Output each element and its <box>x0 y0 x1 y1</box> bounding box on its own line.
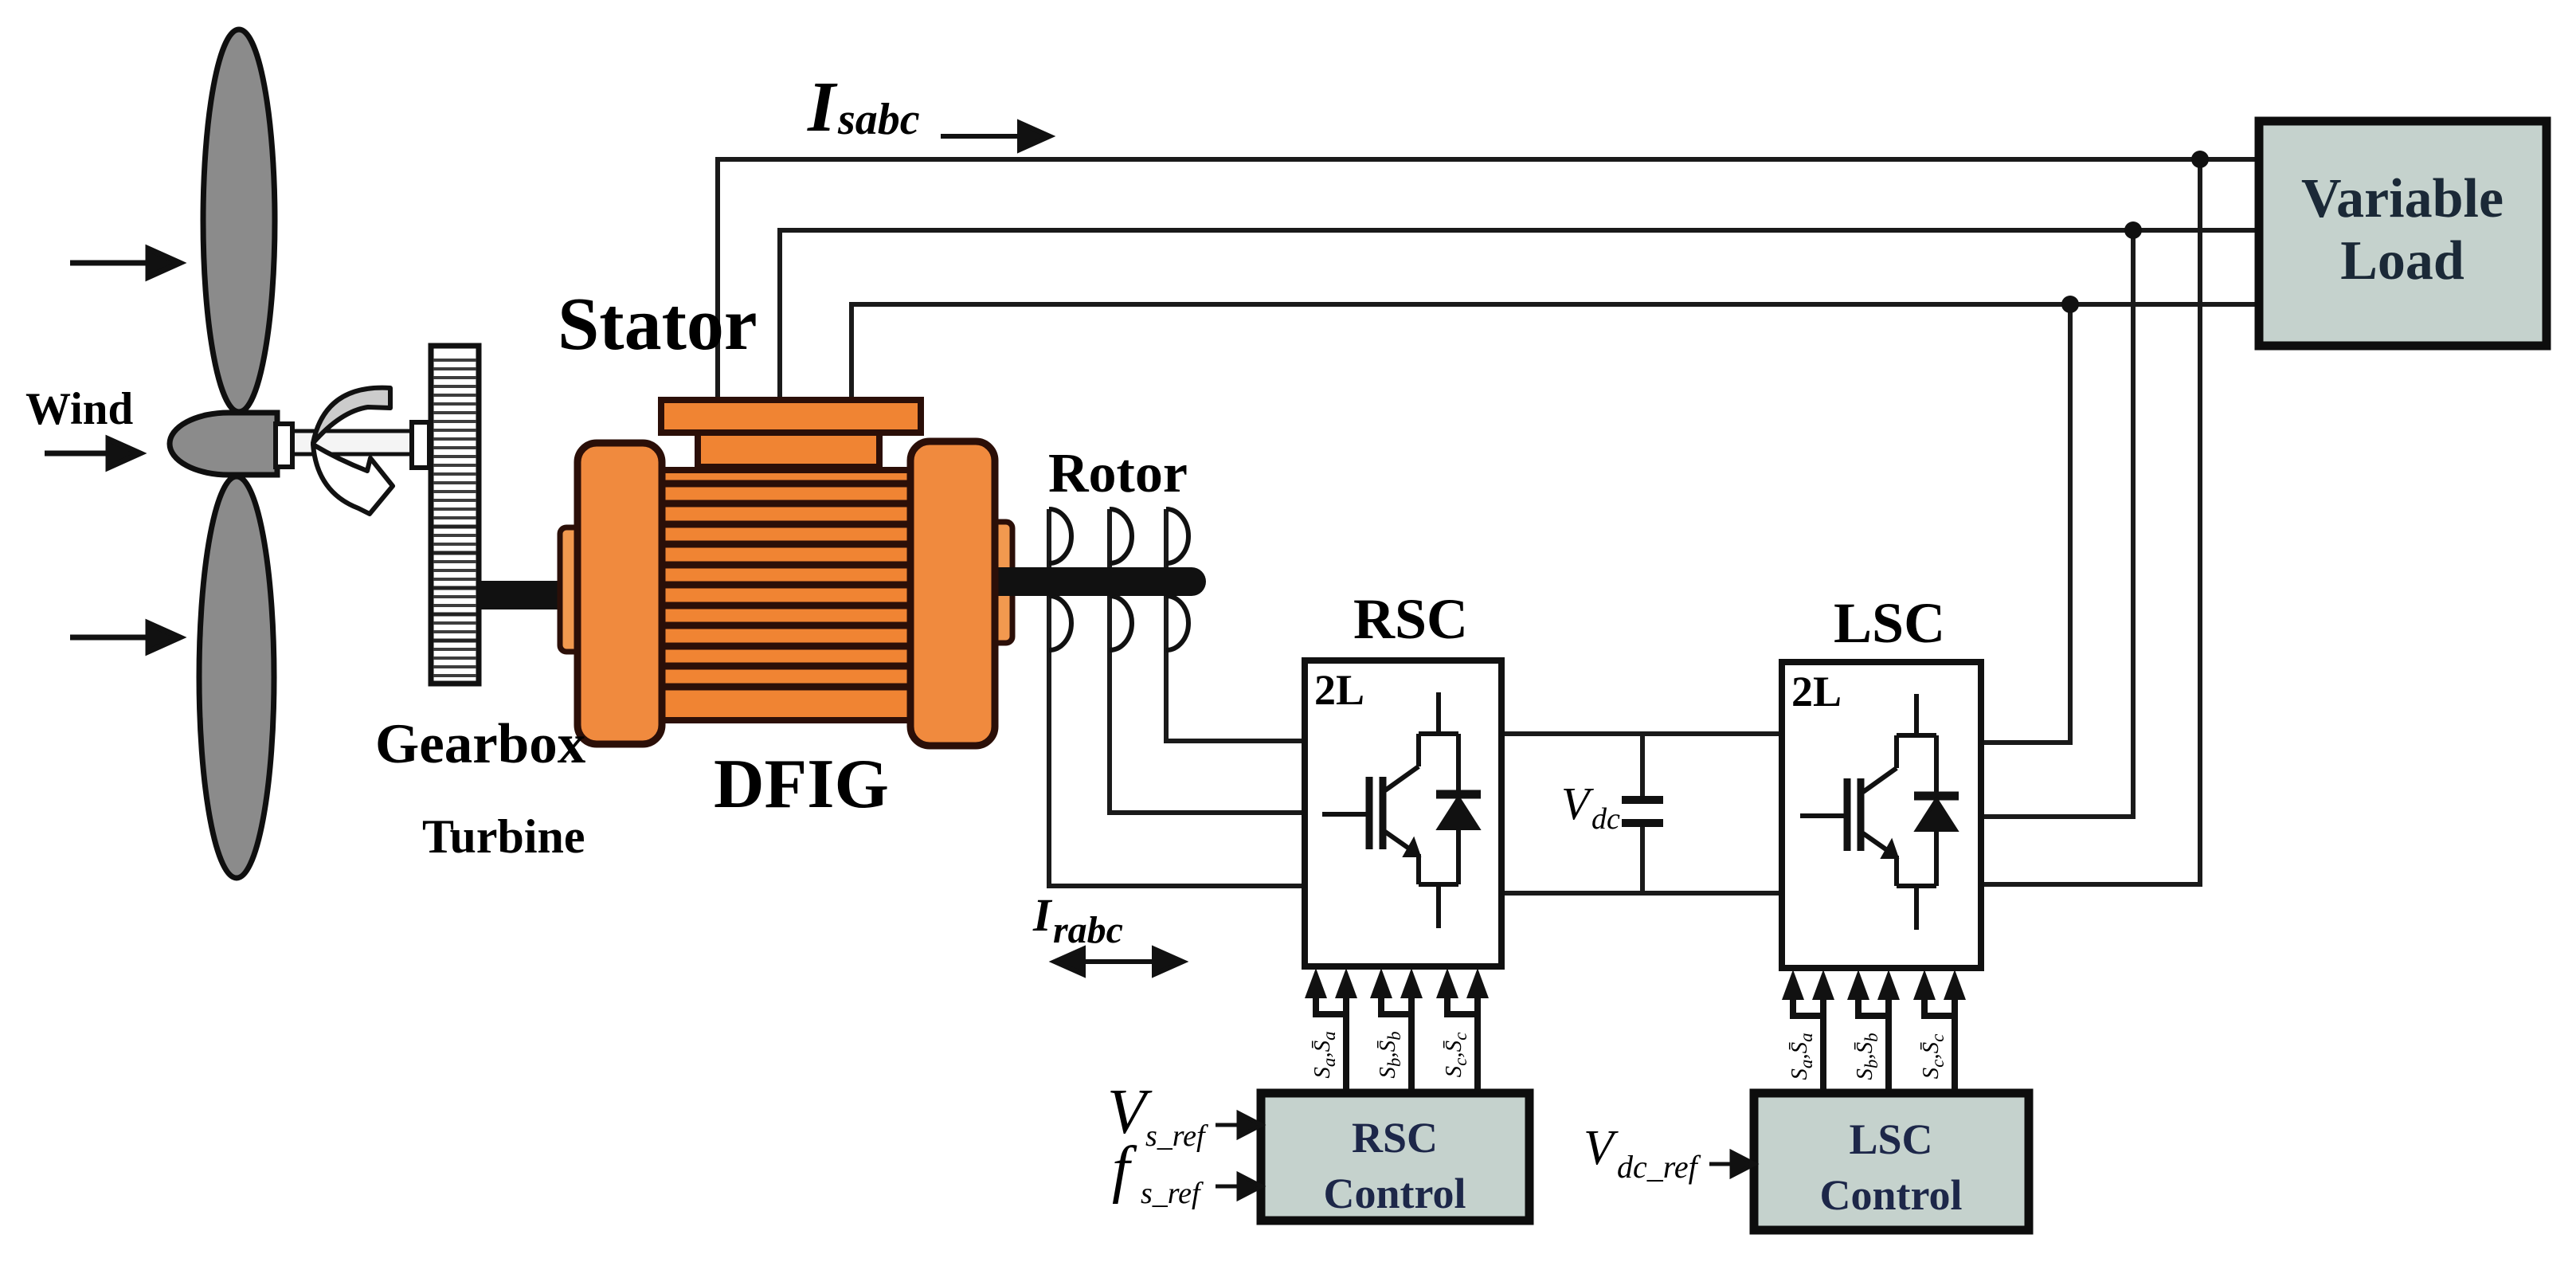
svg-text:V: V <box>1584 1121 1619 1175</box>
svg-text:2L: 2L <box>1314 666 1364 714</box>
svg-text:RSC: RSC <box>1353 587 1468 651</box>
svg-text:Variable: Variable <box>2301 168 2504 229</box>
svg-text:I: I <box>807 68 838 147</box>
svg-text:sabc: sabc <box>837 95 920 144</box>
svg-text:I: I <box>1032 889 1053 941</box>
svg-text:Wind: Wind <box>25 384 134 434</box>
svg-text:dc_ref: dc_ref <box>1617 1149 1701 1185</box>
svg-text:LSC: LSC <box>1849 1115 1932 1163</box>
svg-text:Turbine: Turbine <box>422 810 585 863</box>
svg-text:dc: dc <box>1591 802 1620 836</box>
svg-text:DFIG: DFIG <box>714 746 889 823</box>
svg-text:Rotor: Rotor <box>1048 443 1188 504</box>
svg-text:Load: Load <box>2340 230 2464 292</box>
svg-text:s_ref: s_ref <box>1141 1177 1204 1210</box>
svg-text:s_ref: s_ref <box>1145 1119 1208 1153</box>
svg-text:LSC: LSC <box>1834 591 1945 655</box>
svg-text:2L: 2L <box>1791 668 1842 715</box>
svg-text:Gearbox: Gearbox <box>375 713 586 775</box>
svg-text:Control: Control <box>1323 1170 1466 1217</box>
svg-text:rabc: rabc <box>1053 909 1123 951</box>
svg-text:RSC: RSC <box>1352 1114 1438 1162</box>
svg-text:Control: Control <box>1819 1171 1962 1219</box>
svg-text:Stator: Stator <box>558 283 758 366</box>
